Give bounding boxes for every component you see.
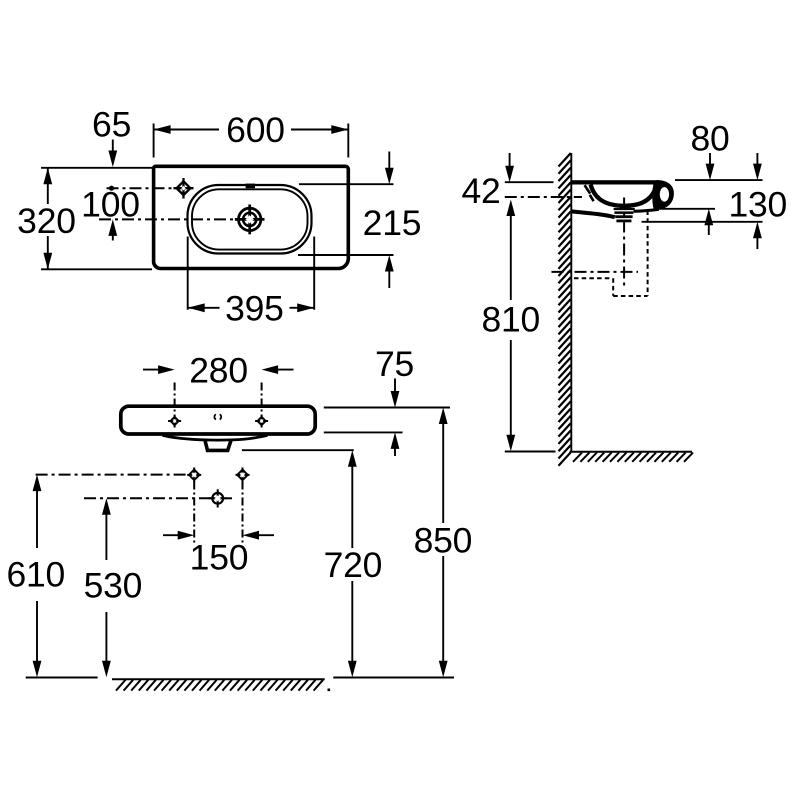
dim 150 left arrow bbox=[178, 531, 195, 540]
trap dashed pipe bottom bbox=[574, 277, 611, 279]
dim 600 right arrow bbox=[331, 125, 348, 134]
drain symbol inner circle bbox=[243, 213, 256, 226]
svg-text:320: 320 bbox=[17, 201, 76, 241]
dim 320 up arrow bbox=[43, 168, 52, 185]
dim 130 upper-arrow shaft bbox=[756, 153, 758, 167]
dim 150 right tail bbox=[257, 534, 274, 536]
svg-text:610: 610 bbox=[6, 554, 65, 594]
dim 610 line upper segment bbox=[36, 488, 38, 548]
extension line slab top level bbox=[324, 407, 450, 409]
dim 150 right arrow bbox=[243, 531, 260, 540]
dim 75 up arrow bbox=[391, 432, 400, 449]
side profile drain strainer stripes bbox=[614, 208, 635, 222]
tap hole symbol diamond outline bbox=[177, 181, 191, 195]
front view underside dip curve bbox=[163, 435, 268, 440]
dim 600 line left segment bbox=[154, 129, 219, 131]
dim 80 lower arrow shaft bbox=[708, 222, 710, 235]
side floor line bbox=[570, 451, 693, 453]
dim 42 down arrow bbox=[505, 166, 514, 183]
plan view: basin outline rectangle bbox=[154, 166, 349, 268]
dim 720 up arrow bbox=[348, 450, 357, 467]
fixing holes lower centerline bbox=[84, 497, 211, 499]
dim 150 left extension centerline bbox=[193, 482, 195, 546]
dim 610 up arrow bbox=[33, 475, 42, 492]
dim 395 right arrow bbox=[297, 303, 314, 312]
extension line bowl lip level bbox=[657, 208, 715, 210]
svg-text:80: 80 bbox=[690, 118, 729, 158]
dim 600 left extension line bbox=[153, 124, 155, 158]
dim 100 arrow shaft bbox=[112, 233, 114, 241]
dim 320 bottom extension line bbox=[41, 268, 152, 270]
dim 130 up arrow bbox=[753, 222, 762, 239]
center fixing symbol bbox=[209, 489, 227, 507]
side profile rim bar bbox=[571, 180, 659, 184]
slab fixing hole left bbox=[168, 415, 181, 428]
svg-text:215: 215 bbox=[363, 203, 422, 243]
svg-text:395: 395 bbox=[225, 289, 284, 329]
extension line slab bottom level bbox=[324, 431, 403, 433]
overflow mark front view bbox=[214, 414, 221, 419]
dim 600 right extension line bbox=[347, 124, 349, 158]
dim 65 down arrow bbox=[108, 151, 117, 168]
centerline tap level bbox=[107, 187, 177, 189]
dim 80 up arrow bbox=[704, 209, 713, 226]
extension line drain bottom level bbox=[242, 449, 354, 451]
dim 42 arrow shaft bbox=[509, 153, 511, 169]
dim 130 down arrow bbox=[753, 164, 762, 181]
centerline basin horizontal axis bbox=[99, 218, 237, 220]
dim 395 right extension line bbox=[313, 237, 315, 310]
front view drain bucket bbox=[205, 440, 231, 450]
dim 150 right extension centerline bbox=[242, 482, 244, 546]
dim 280 left arrow bbox=[158, 365, 175, 374]
wall right edge line bbox=[570, 153, 572, 452]
dim 75 lower arrow shaft bbox=[394, 446, 396, 457]
svg-text:720: 720 bbox=[324, 545, 383, 585]
dot at left end of tap centerline bbox=[109, 186, 114, 191]
overflow tick on oval top bbox=[246, 184, 255, 189]
dim 850 line upper segment bbox=[442, 421, 444, 523]
dim 320 line lower segment bbox=[47, 236, 49, 269]
front view slab outline bbox=[121, 406, 315, 434]
dim 600 left arrow bbox=[154, 125, 171, 134]
wall fixing hole right bbox=[236, 468, 250, 483]
svg-text:65: 65 bbox=[92, 104, 131, 144]
dim 215 bottom extension line bbox=[298, 254, 394, 256]
dim 320 line upper segment bbox=[47, 168, 49, 204]
trap dashed right side bbox=[647, 211, 649, 297]
svg-text:810: 810 bbox=[481, 299, 540, 339]
floor hatch end dot bbox=[328, 689, 331, 692]
svg-text:100: 100 bbox=[81, 185, 140, 225]
plan basin outer oval bbox=[188, 185, 312, 254]
dim 215 down arrow bbox=[385, 168, 394, 185]
dim 80 down arrow bbox=[706, 164, 715, 181]
side profile rear bracket diagonal lower bbox=[590, 195, 594, 201]
drain symbol outer circle bbox=[239, 208, 261, 230]
svg-text:150: 150 bbox=[190, 537, 249, 577]
trap vertical centerline bbox=[623, 198, 625, 288]
dim 75 upper arrow shaft bbox=[394, 379, 396, 395]
dim 280 line left tail bbox=[143, 369, 160, 371]
svg-text:130: 130 bbox=[728, 185, 787, 225]
dim 280 right arrow bbox=[262, 365, 279, 374]
rim top extension line bbox=[675, 179, 763, 181]
dim 80 arrow shaft bbox=[709, 153, 711, 167]
side profile bowl bottom right lip bbox=[634, 209, 659, 211]
tap hole white center bbox=[181, 186, 186, 191]
dim 850 up arrow bbox=[439, 408, 448, 425]
dim 215 upper arrow shaft bbox=[388, 152, 390, 172]
drain symbol cross vertical bbox=[248, 205, 251, 235]
dim 215 top extension line bbox=[299, 183, 394, 185]
plan basin inner oval bbox=[192, 189, 308, 249]
dim 215 lower arrow shaft bbox=[388, 268, 390, 288]
side profile bowl interior wall bbox=[591, 185, 656, 206]
slab fixing hole right bbox=[255, 415, 268, 428]
dim 810 down arrow bbox=[506, 435, 515, 452]
dim 320 down arrow bbox=[43, 253, 52, 269]
wall fixing hole left bbox=[187, 468, 201, 483]
side profile D white hole bbox=[660, 187, 669, 202]
tap hole symbol cross vertical bbox=[182, 178, 184, 199]
floor base line left bbox=[26, 677, 98, 679]
side profile rear bracket diagonal upper bbox=[585, 185, 591, 193]
svg-text:42: 42 bbox=[461, 171, 500, 211]
dim 610 down arrow bbox=[33, 661, 42, 678]
fixing level dash-dot line bbox=[505, 196, 582, 198]
dim 130 lower arrow shaft bbox=[756, 235, 758, 249]
rim level extension line left bbox=[505, 181, 554, 183]
svg-text:600: 600 bbox=[226, 110, 285, 150]
trap dashed left side bbox=[612, 278, 614, 296]
dim 280 line right tail bbox=[276, 369, 294, 371]
side floor hatch strokes bbox=[573, 453, 693, 462]
shared extension line at rect top level bbox=[41, 167, 152, 169]
side profile underside line bbox=[571, 211, 615, 217]
fixing holes lower centerline tail bbox=[225, 497, 233, 499]
dim 600 line right segment bbox=[291, 129, 348, 131]
floor hatch top line bbox=[112, 678, 325, 680]
svg-text:850: 850 bbox=[414, 520, 473, 560]
dim 810 floor base line bbox=[505, 451, 556, 453]
trap dashed bottom bbox=[613, 295, 647, 297]
dim 810 line upper segment bbox=[510, 213, 512, 300]
dim 720 down arrow bbox=[348, 661, 357, 678]
floor hatch strokes front view bbox=[116, 680, 323, 691]
dim 215 up arrow bbox=[385, 255, 394, 272]
svg-text:280: 280 bbox=[189, 350, 248, 390]
dim 395 left arrow bbox=[188, 303, 205, 312]
dim 65 arrow shaft bbox=[112, 140, 114, 154]
extension line basin underside level bbox=[642, 221, 763, 223]
dim 150 left tail bbox=[163, 534, 180, 536]
dim 810 up arrow bbox=[506, 200, 515, 217]
dim 530 line lower segment bbox=[105, 612, 107, 663]
dim 850 line lower segment bbox=[442, 556, 444, 663]
dim 75 down arrow bbox=[391, 391, 400, 408]
floor base line right bbox=[333, 677, 454, 679]
drain symbol cross horizontal bbox=[235, 218, 265, 221]
trap centerline horizontal bbox=[552, 271, 639, 273]
fixing holes upper centerline bbox=[36, 474, 188, 476]
dim 610 line lower segment bbox=[36, 601, 38, 663]
tap hole symbol cross horizontal bbox=[174, 187, 194, 189]
dim 280 right extension centerline bbox=[261, 383, 263, 415]
dim 530 line upper segment bbox=[105, 512, 107, 561]
dim 100 up arrow bbox=[108, 219, 117, 236]
dim 280 left extension centerline bbox=[174, 383, 176, 415]
wall hatch strokes bbox=[559, 153, 571, 466]
dim 395 line right segment bbox=[290, 307, 315, 309]
svg-text:530: 530 bbox=[84, 566, 143, 606]
svg-text:75: 75 bbox=[375, 344, 414, 384]
dim 850 down arrow bbox=[439, 661, 448, 678]
dim 530 up arrow bbox=[102, 498, 111, 515]
side profile front edge D hook bbox=[652, 180, 674, 209]
dim 720 line upper segment bbox=[351, 464, 353, 549]
dim 395 left extension line bbox=[187, 237, 189, 310]
drain symbol white center diamond bbox=[246, 215, 254, 223]
dim 395 line left segment bbox=[188, 307, 220, 309]
dim 720 line lower segment bbox=[351, 581, 353, 663]
dim 810 line lower segment bbox=[510, 340, 512, 438]
dim 530 down arrow bbox=[102, 661, 111, 678]
